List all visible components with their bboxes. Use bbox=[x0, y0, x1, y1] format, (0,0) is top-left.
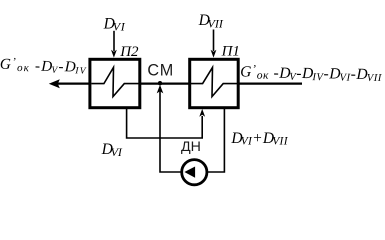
svg-text:П1: П1 bbox=[221, 43, 240, 59]
svg-text:П2: П2 bbox=[119, 44, 139, 60]
svg-text:ДН: ДН bbox=[181, 139, 201, 155]
svg-text:СМ: СМ bbox=[147, 62, 174, 80]
